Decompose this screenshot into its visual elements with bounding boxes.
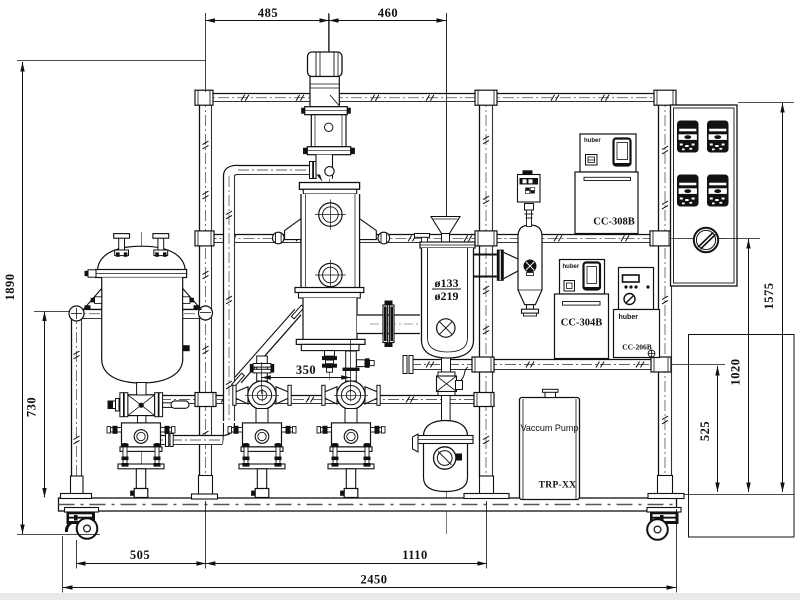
svg-text:huber: huber (563, 264, 580, 270)
cabinet CC-304B huber unit (560, 260, 605, 295)
dimension 1575 (762, 103, 785, 492)
frame leg far left (72, 313, 82, 477)
pump P1 valve bottom stem (138, 416, 146, 423)
coupling top pipe leg3 (475, 90, 497, 105)
svg-text:505: 505 (130, 548, 150, 562)
coupling lower right pipe leg3 (472, 357, 494, 372)
pump leg (346, 469, 355, 489)
pump neck (345, 409, 357, 423)
huber CC-206B upper unit (619, 268, 654, 310)
right side table box (689, 335, 795, 538)
leg2 ball joint (199, 306, 213, 320)
dimension 350 (261, 363, 350, 380)
pump body at x=141 (122, 423, 161, 447)
svg-text:CC-206B: CC-206B (622, 343, 652, 352)
pump P3 side stub (357, 358, 375, 368)
pump suction manifold pipe (160, 396, 484, 404)
svg-text:huber: huber (584, 138, 601, 144)
column lower flange (295, 288, 364, 299)
column outlet pipe to feed vessel (357, 315, 420, 334)
vacuum pump box (520, 389, 580, 499)
column bracket left (285, 219, 301, 240)
column bracket right (360, 219, 377, 240)
pipe union right of column (378, 232, 390, 244)
second frame pipe (206, 235, 669, 243)
feed vessel lid nozzle (415, 234, 430, 243)
V1 lug bolt pads (85, 305, 91, 309)
column shaft housing (310, 77, 339, 107)
far left leg foot pad (61, 494, 92, 499)
left vessel support pipe (70, 310, 211, 319)
column sight glass upper (315, 200, 346, 230)
pump leg (257, 469, 266, 489)
730 extension line (34, 311, 70, 313)
column bottom flange (296, 339, 365, 350)
bottom extension lines (76, 540, 78, 569)
pump base flanges (241, 447, 283, 452)
lower right pipe end flange (403, 356, 413, 374)
top frame pipe (199, 94, 668, 102)
cold trap vessel (518, 225, 542, 305)
V1 top nozzle left (114, 234, 130, 257)
1575 extension lines (738, 102, 794, 104)
receiver vessel body (424, 421, 468, 492)
V1 bottom dome (102, 359, 183, 383)
column upper cylinder (311, 115, 346, 147)
leg3 foot pad (464, 494, 509, 499)
svg-text:1110: 1110 (402, 548, 428, 562)
pump P1 valve handle (163, 401, 189, 408)
dimension 485 (206, 6, 330, 23)
panel gauge at 677,174.5 (677, 175, 699, 207)
diagonal residue pipe (232, 305, 304, 387)
pump riser at x=262 (257, 356, 268, 381)
huber CC-206B box (614, 310, 660, 358)
feed vessel bottom dome (422, 340, 474, 358)
coupling top pipe right leg (654, 90, 676, 105)
lower right pipe (410, 360, 662, 370)
panel gauge at 707,120.5 (707, 121, 729, 153)
feed vessel bottom stem (442, 358, 451, 373)
coupling top pipe left end (195, 90, 213, 105)
cold trap bottom stem and flange (522, 305, 539, 316)
digital sensor (518, 170, 541, 202)
pump1 discharge horizontal pipe (152, 436, 222, 445)
receiver sight glass (434, 447, 463, 469)
leg2 foot pad (192, 494, 218, 499)
svg-text:460: 460 (378, 6, 398, 20)
coupling pipe2 right leg (650, 231, 672, 246)
column flange 2 (303, 147, 355, 155)
feed funnel (431, 217, 460, 243)
frame leg 2 (200, 96, 212, 476)
svg-text:730: 730 (25, 397, 39, 417)
pipe union left of column (273, 232, 285, 244)
V1 support lug right (183, 289, 201, 310)
panel rotary knob (694, 228, 718, 252)
feed vessel lid (420, 242, 475, 248)
feed vessel stirrer circle (437, 319, 455, 337)
feed fitting clamp wedge (317, 175, 323, 183)
frame leg right (659, 96, 672, 476)
coupling pipe2 left end (195, 231, 214, 246)
left caster (65, 508, 99, 539)
cold trap reducer cone (504, 253, 518, 279)
left vessel centerline (141, 232, 143, 499)
riser elbow top (229, 165, 240, 176)
V1 support lug left (84, 289, 102, 310)
V1 flange ring (96, 270, 187, 278)
dimension 525 (698, 366, 720, 492)
cold trap valve circle (524, 260, 536, 276)
manifold left stub (108, 399, 126, 412)
svg-text:Vaccum Pump: Vaccum Pump (521, 423, 579, 433)
pump leg (136, 469, 145, 489)
svg-text:huber: huber (619, 314, 639, 321)
feed pipe flange (310, 162, 317, 179)
pump circular head at x=351 (322, 385, 380, 405)
svg-text:CC-308B: CC-308B (593, 217, 634, 228)
svg-text:1890: 1890 (3, 274, 17, 301)
feed vessel centerline (446, 14, 448, 534)
coupling lower right pipe right leg (651, 357, 671, 372)
svg-text:485: 485 (258, 6, 278, 20)
svg-text:350: 350 (296, 363, 316, 377)
cold trap outlet black flange (497, 250, 504, 281)
column centerline (329, 14, 331, 380)
feed vessel body (422, 248, 474, 341)
column motor (308, 52, 343, 77)
dimension 730 (25, 312, 47, 498)
V1 body (102, 278, 183, 361)
svg-text:CC-304B: CC-304B (561, 318, 602, 329)
V1 top nozzle right (153, 234, 169, 257)
discharge flange pair (166, 434, 174, 447)
right caster (647, 508, 681, 540)
column neck (316, 155, 333, 179)
pump body at x=262 (243, 423, 282, 447)
svg-text:ø219: ø219 (435, 289, 459, 303)
left vessel V1 dome top (98, 246, 186, 269)
coupling manifold leg3 end (474, 393, 494, 407)
frame leg 3 (480, 96, 493, 477)
column sight glass lower (315, 260, 346, 290)
skid base frame (59, 498, 677, 511)
receiver vessel top stem (442, 396, 451, 421)
svg-text:1575: 1575 (762, 283, 776, 310)
V1 bottom stem (137, 383, 146, 396)
column lower body (303, 298, 357, 339)
dimension 1020 (729, 239, 751, 492)
leg ball joint far left (69, 306, 84, 321)
cabinet CC-308B huber unit (580, 134, 636, 172)
receiver left handle (413, 434, 419, 452)
diameter labels (432, 276, 461, 303)
V1 side stub left (91, 297, 102, 304)
receiver flange band (418, 436, 473, 444)
V1 left flange nozzle (85, 270, 97, 277)
dimension 505 (76, 548, 206, 566)
cabinet CC-308B box (575, 172, 638, 234)
feed pipe to column neck (238, 166, 315, 175)
pump circular head at x=262 (233, 385, 291, 405)
V1 lower right stub (183, 345, 190, 351)
right leg foot pad (648, 494, 684, 499)
svg-text:1020: 1020 (729, 359, 743, 386)
pump base flanges (330, 447, 372, 452)
cold trap sensor stem (525, 204, 534, 227)
dimension 460 (329, 6, 446, 23)
pump neck (256, 409, 268, 423)
extension lines top (205, 13, 207, 92)
riser elbow bottom (222, 420, 235, 445)
cabinet CC-304B box (555, 294, 609, 359)
dimension 1110 (206, 548, 487, 566)
svg-text:525: 525 (698, 421, 712, 441)
column flange 1 (301, 107, 351, 115)
525 extension line (672, 364, 725, 366)
bottom gray strip (0, 593, 800, 600)
svg-text:2450: 2450 (361, 573, 388, 587)
V1 side stub right (183, 297, 194, 304)
panel gauge at 707,174.5 (707, 175, 729, 207)
1020 extension line (723, 238, 760, 240)
coupling pipe2 leg3 (475, 231, 497, 246)
dimension 1890 (3, 62, 25, 534)
feed vessel drain valve (437, 367, 469, 396)
feed riser vertical pipe (224, 176, 235, 421)
column main body (301, 194, 360, 288)
pipe2 line across panel to knob (672, 238, 695, 240)
column top flange (299, 183, 359, 195)
pump riser at x=351 (346, 351, 357, 381)
panel gauge at 677,120.5 (677, 121, 699, 153)
outlet pipe flange pair (383, 301, 394, 348)
dimension 2450 (63, 573, 676, 590)
svg-text:ø133: ø133 (435, 276, 459, 290)
electrical panel (671, 105, 738, 286)
svg-text:TRP-XX: TRP-XX (539, 481, 577, 491)
feed vessel right outlet duct to cold trap (474, 255, 497, 277)
1890 extension lines (17, 60, 206, 62)
coupling manifold leg2 (195, 393, 216, 407)
column bottom drain fitting (322, 351, 337, 373)
pump base flanges (120, 447, 162, 452)
pump P1 valve body (120, 393, 163, 417)
column feed fitting (325, 167, 334, 176)
pump body at x=351 (332, 423, 371, 447)
350 extension lines (261, 362, 263, 394)
